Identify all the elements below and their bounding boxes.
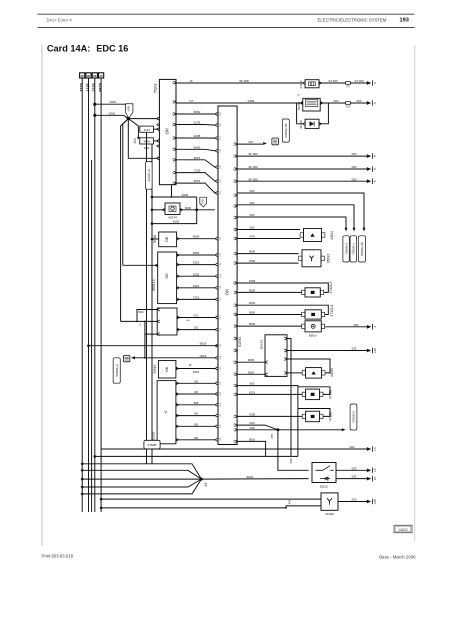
pin box1 left y140.9	[157, 139, 160, 142]
svg-text:000: 000	[250, 213, 255, 217]
svg-text:L95: L95	[373, 348, 377, 353]
pin box2 left entry y317.5	[215, 316, 218, 319]
unit box5 body	[157, 308, 177, 335]
fuse Y13 inline	[346, 102, 351, 105]
wire bus to harness y479.1	[82, 478, 101, 480]
wire 8562 feed	[237, 325, 302, 327]
fuse F4 top-left	[99, 73, 104, 78]
svg-text:453: 453	[288, 499, 292, 504]
svg-text:/08: /08	[194, 436, 198, 440]
pin box1 right y172.6	[173, 171, 176, 174]
pin box1 bottom	[171, 185, 173, 197]
svg-text:2609: 2609	[249, 301, 256, 305]
wire 47106 return loop	[298, 409, 330, 417]
pin box2 left entry y357.8	[215, 356, 218, 359]
wire bus to harness y487.0	[82, 486, 101, 488]
svg-text:5F 908: 5F 908	[239, 79, 249, 83]
pin box2 left entry y394.0	[215, 393, 218, 396]
fuse 61112 body	[305, 80, 319, 88]
svg-text:53528+9: 53528+9	[115, 364, 119, 376]
svg-text:0018: 0018	[200, 354, 207, 358]
svg-text:52: 52	[81, 74, 84, 78]
svg-text:193: 193	[400, 18, 409, 24]
unit 85152 body	[157, 381, 176, 444]
wire bus to harness y470.3	[82, 469, 101, 471]
svg-text:75301: 75301	[154, 84, 158, 94]
pin box2 left entry y426.3	[215, 425, 218, 428]
sensor 8562 body	[305, 321, 321, 332]
tag 72868+3	[343, 236, 349, 262]
harness A9 outline bottom	[101, 479, 201, 494]
svg-text:800: 800	[250, 382, 255, 386]
wire 5F908 ECU to fuse 61112	[176, 82, 303, 84]
svg-text:6550: 6550	[193, 251, 200, 255]
sensor 47308 body	[306, 389, 320, 400]
connector 414 upper half	[140, 126, 154, 132]
wire 61112 to terminator	[319, 82, 368, 84]
svg-text:61593: 61593	[238, 337, 242, 347]
svg-text:L6: L6	[373, 447, 377, 451]
wire 9202 horizontal	[152, 196, 197, 198]
wire 86XXX feed 9005	[237, 361, 265, 363]
svg-text:L6: L6	[373, 477, 377, 481]
svg-text:7155: 7155	[92, 83, 96, 91]
terminator arrow L95	[367, 349, 371, 353]
wire box5 stub down join 0018	[144, 334, 146, 358]
wire bus 1376 vertical	[88, 78, 90, 512]
wire relay out L6b	[336, 478, 368, 480]
svg-text:0061: 0061	[109, 111, 116, 115]
wire relay out L5	[336, 469, 368, 471]
svg-text:47320-2: 47320-2	[329, 281, 333, 293]
wire 21098 out	[338, 501, 368, 503]
svg-text:000: 000	[357, 99, 362, 103]
injector 44044 no2 body	[306, 368, 322, 379]
svg-text:8562+: 8562+	[309, 333, 318, 337]
pin box1 right y101.8	[173, 100, 176, 103]
wire 86XXX feed 9006	[237, 373, 265, 375]
wire 414 to box1 stub upper	[154, 128, 157, 130]
svg-text:86XXX: 86XXX	[259, 340, 263, 350]
svg-text:SF 000: SF 000	[248, 152, 258, 156]
wire 85021 out 5155	[177, 275, 215, 277]
tag 53528+9	[113, 358, 120, 383]
svg-text:52302: 52302	[297, 101, 301, 110]
svg-text:85021 1: 85021 1	[152, 279, 156, 291]
wire parallel loop relay-diode left	[297, 103, 303, 124]
svg-text:/10: /10	[194, 390, 198, 394]
svg-text:6901: 6901	[193, 370, 200, 374]
svg-text:2/05: 2/05	[249, 421, 255, 425]
wire 47308 return loop	[298, 387, 330, 395]
svg-text:61976+9: 61976+9	[147, 169, 151, 181]
wire A9 to relay 9001	[201, 478, 308, 481]
pin box2 left entry y383.3	[215, 382, 218, 385]
wire box5 feed mid	[121, 320, 158, 322]
fuse F1 top-left	[80, 73, 85, 78]
wire 9051 box1 to box2	[176, 183, 215, 193]
svg-text:44044: 44044	[330, 368, 334, 377]
fuse F2 top-left	[86, 73, 91, 78]
svg-text:9005: 9005	[248, 358, 255, 362]
wire node to box2 9108	[197, 209, 215, 211]
svg-text:9 6322: 9 6322	[136, 311, 144, 314]
svg-text:61315: 61315	[299, 120, 303, 129]
svg-text:8050: 8050	[194, 110, 201, 114]
svg-text:000: 000	[352, 165, 357, 169]
svg-text:0609: 0609	[249, 288, 256, 292]
svg-text:OK: OK	[165, 273, 169, 279]
svg-text:OK: OK	[165, 366, 169, 372]
svg-text:<: <	[163, 410, 169, 413]
wire 475 vertical to relay	[278, 430, 309, 471]
svg-text:ELECTRIC/ELECTRONIC SYSTEM: ELECTRIC/ELECTRONIC SYSTEM	[318, 18, 387, 23]
terminator arrow L95 bottom	[367, 500, 371, 504]
pin box2 left entry y238.7	[215, 237, 218, 240]
node 475 branch	[276, 428, 279, 431]
terminator arrow row 3	[367, 179, 371, 183]
relay 52302 body	[303, 98, 320, 111]
pin box2 left entry y368.5	[215, 367, 218, 370]
wire bus 7155 vertical	[94, 78, 96, 512]
wire 8050 box1 to box2	[176, 113, 215, 115]
svg-text:0366: 0366	[248, 99, 255, 103]
wire junction to box1 pin	[128, 118, 156, 120]
harness A9 inner wire 1	[101, 470, 201, 479]
unit 76116 body	[159, 232, 177, 247]
relay 8112C body	[312, 463, 336, 483]
svg-text:000: 000	[352, 475, 357, 479]
tag A78	[200, 197, 207, 207]
svg-text:9606: 9606	[249, 250, 256, 254]
wire 47308 feed	[237, 393, 302, 395]
wire L6 long 449	[101, 448, 368, 450]
wire 0061 branch lower	[95, 115, 129, 118]
wire bus extra vertical	[91, 160, 93, 512]
pin box2 left entry y439.8	[215, 438, 218, 441]
wire 42374 left	[152, 209, 165, 211]
svg-text:Y17: Y17	[189, 100, 194, 103]
svg-text:414: 414	[133, 138, 137, 144]
terminator arrow L6 mid	[367, 447, 371, 451]
pin box1 right y124.5	[173, 123, 176, 126]
wire 44044no1 pin2	[237, 238, 300, 240]
svg-text:8150: 8150	[185, 206, 192, 210]
ECU U1 75301 body	[159, 79, 176, 184]
svg-text:9018: 9018	[200, 342, 207, 346]
wire 76116 to box2 0605	[177, 238, 215, 240]
wire 44044no1 pin1	[237, 229, 300, 231]
svg-text:1/08: 1/08	[249, 426, 255, 430]
wire 86XXX pin2 to terminator L95	[287, 350, 368, 352]
wire box5 feed lower stub	[145, 321, 157, 334]
svg-text:OK: OK	[165, 236, 169, 242]
svg-text:000: 000	[354, 323, 359, 327]
svg-text:4/78: 4/78	[249, 235, 255, 239]
svg-text:21098: 21098	[325, 512, 334, 516]
svg-text:6879: 6879	[99, 83, 103, 91]
svg-text:1609: 1609	[249, 279, 256, 283]
svg-text:72868+1: 72868+1	[352, 243, 356, 255]
wire 9018 long	[89, 345, 219, 347]
svg-text:OK: OK	[165, 127, 170, 135]
svg-text:53519: 53519	[153, 365, 157, 374]
pin box1 right y82.7	[173, 81, 176, 84]
svg-text:DAILY EURO 4: DAILY EURO 4	[47, 17, 73, 22]
wire 0040 box1 to box2	[176, 149, 215, 151]
svg-text:Y13: Y13	[346, 104, 351, 108]
svg-text:A36: A36	[127, 106, 131, 112]
wire box5 out 011	[177, 329, 215, 331]
sheet number tag 14021	[394, 525, 412, 532]
wire diagonal to bus box5	[121, 119, 129, 322]
svg-text:A9: A9	[204, 482, 208, 486]
wire 85152 out /05	[176, 425, 215, 427]
svg-text:7006: 7006	[249, 412, 256, 416]
wire bus to harness y463.8	[82, 463, 101, 465]
wire 47320-2 feed	[237, 291, 302, 293]
wire 47320-2 return loop	[237, 283, 328, 292]
wire 0061 branch upper	[95, 103, 133, 105]
wire diagonal to connector 414	[128, 119, 138, 138]
resistor 42374 body	[165, 203, 180, 215]
svg-text:2150B: 2150B	[148, 443, 157, 447]
wire 2/05 slope	[237, 425, 278, 430]
svg-text:017: 017	[194, 314, 199, 318]
svg-text:3015: 3015	[194, 156, 201, 160]
wire 9016 down	[237, 441, 266, 456]
svg-text:85093: 85093	[327, 254, 331, 263]
pin box2 left entry y345.7	[215, 344, 218, 347]
injector 44044 no1 body	[304, 229, 322, 242]
wire 85021 out 6550	[177, 254, 215, 256]
wire 85093 pin2	[237, 262, 299, 264]
wire 85021 left feed	[123, 264, 158, 266]
svg-text:9202: 9202	[182, 193, 189, 197]
tag 09509+95	[282, 119, 289, 142]
svg-text:7155: 7155	[194, 169, 201, 173]
svg-text:9001: 9001	[247, 475, 254, 479]
harness A9 inner wire 3	[101, 479, 201, 487]
terminator arrow card 5 top	[367, 81, 371, 85]
svg-text:15: 15	[100, 74, 103, 78]
wire 85021 out 7322	[177, 298, 215, 300]
pin box1 right y114.0	[173, 113, 176, 116]
header rule bottom	[38, 27, 415, 29]
svg-text:7609: 7609	[249, 259, 256, 263]
tag 72868+2	[350, 404, 357, 430]
pin box1 left y158.3	[157, 157, 160, 160]
wire 86XXX pin4 to 44044 no2	[287, 372, 302, 374]
wire 53519 out	[176, 368, 215, 370]
wire 21098 feed lower	[101, 506, 321, 508]
svg-text:/06: /06	[194, 412, 198, 416]
pin box2 left entry y264.6	[215, 263, 218, 266]
sensor 47106 body	[306, 411, 320, 422]
svg-text:14021: 14021	[398, 528, 408, 532]
wire 0366 ECU to relay 52302	[176, 102, 303, 104]
svg-text:1208: 1208	[194, 134, 201, 138]
svg-text:Print 603.93.618: Print 603.93.618	[42, 554, 74, 559]
svg-text:0061: 0061	[110, 100, 117, 104]
wire 0018 with arrow to icon	[133, 357, 215, 359]
pump 21098 body	[321, 493, 338, 510]
wire 47320-1 feed	[237, 314, 302, 316]
pin box1 right y159.8	[173, 158, 176, 161]
tag 61976+9	[146, 162, 153, 190]
terminator arrow row 1	[367, 154, 371, 158]
svg-text:L5: L5	[373, 468, 377, 472]
wire 85152 out /06	[176, 415, 215, 417]
unit 86XXX body	[265, 335, 287, 377]
svg-text:905: 905	[194, 401, 199, 405]
svg-text:000: 000	[352, 466, 357, 470]
svg-text:475: 475	[270, 434, 274, 439]
fuse F3 top-left	[92, 73, 97, 78]
terminator bar 8562	[367, 325, 371, 329]
svg-text:000: 000	[352, 152, 357, 156]
sensor 47320-2 body	[305, 288, 320, 297]
svg-text:50: 50	[93, 74, 96, 78]
wire 3015 box1 to box2	[176, 160, 215, 167]
node 42374 output	[195, 208, 198, 211]
pin box1 left y129.2	[157, 128, 160, 131]
page border left	[41, 44, 43, 546]
svg-text:000: 000	[352, 498, 357, 502]
wire 8562 out to terminator	[325, 326, 369, 328]
page border right	[414, 46, 416, 541]
svg-text:5143: 5143	[194, 121, 201, 125]
wire 097 to Pb	[237, 143, 263, 145]
svg-text:097: 097	[249, 140, 254, 144]
svg-text:000: 000	[352, 177, 357, 181]
connector X1 61593 body	[218, 106, 237, 445]
svg-text:000: 000	[334, 99, 339, 103]
svg-text:5155: 5155	[193, 272, 200, 276]
wire 85152 out /05	[176, 382, 215, 384]
tag 2150B on wire	[144, 440, 160, 449]
wire 86XXX pin3 loop over 44044	[287, 359, 330, 373]
svg-text:72868+2: 72868+2	[352, 411, 356, 423]
wire bus left A	[146, 132, 148, 464]
pin box1 right y183.1	[173, 182, 176, 185]
wire diagonal to bus 85021	[123, 119, 129, 266]
svg-text:9016: 9016	[249, 437, 256, 441]
svg-text:683: 683	[289, 458, 293, 463]
svg-text:SF 000: SF 000	[248, 177, 258, 181]
pin box2 left entry y404.8	[215, 403, 218, 406]
wire 85021 out 3322	[177, 287, 215, 289]
header rule top	[38, 13, 415, 15]
pin box2 left entry y415.6	[215, 414, 218, 417]
wire bus 6879 vertical	[100, 78, 102, 512]
icon diagnostic connector	[124, 355, 130, 361]
sensor 47320-1 body	[305, 310, 321, 319]
pin box2 left entry y287.8	[215, 286, 218, 289]
svg-text:61112: 61112	[299, 80, 303, 88]
svg-text:8112C: 8112C	[320, 485, 329, 489]
wire 85152 out /10	[176, 393, 215, 395]
tag 53066+30	[358, 236, 365, 262]
svg-text:30: 30	[87, 74, 90, 78]
svg-text:1376: 1376	[86, 83, 90, 91]
wire 21098 feed upper	[101, 498, 321, 500]
svg-text:47320-1: 47320-1	[330, 304, 334, 316]
node junction main	[127, 117, 130, 120]
wire SF000 row 3	[237, 180, 368, 182]
wire 414 to box1 stub lower	[154, 140, 157, 142]
wire 85152 out 905	[176, 404, 215, 406]
wire 800 to vertical bus	[237, 386, 298, 457]
svg-text:011: 011	[194, 326, 199, 330]
svg-text:6215: 6215	[249, 390, 256, 394]
svg-text:9051: 9051	[194, 179, 201, 183]
wire bypass loop bottom	[152, 210, 197, 224]
wire box5 out 017	[177, 317, 215, 319]
svg-text:85152: 85152	[151, 431, 155, 440]
svg-text:0322: 0322	[193, 261, 200, 265]
svg-text:3322: 3322	[193, 284, 200, 288]
wire 76116 left	[152, 238, 159, 240]
svg-text:ST 000: ST 000	[354, 79, 364, 83]
svg-text:9105: 9105	[173, 220, 180, 224]
svg-text:0040: 0040	[194, 145, 201, 149]
wire relay to terminator	[320, 102, 368, 104]
svg-text:000: 000	[250, 189, 255, 193]
svg-text:0605: 0605	[193, 235, 200, 239]
svg-text:/05: /05	[194, 422, 198, 426]
node A9 point	[200, 478, 203, 481]
wire junction vertical to box1 lower pin	[128, 119, 156, 159]
svg-text:000: 000	[352, 347, 357, 351]
wire return 456 long	[95, 455, 298, 457]
tag A36	[126, 104, 133, 119]
wire 85021 out 0322	[177, 264, 215, 266]
wire CAN low to tag	[237, 205, 354, 228]
wire SF000 row 2	[237, 168, 368, 170]
wire K line to tag	[237, 217, 346, 228]
wire 1/08 to tag arrow	[237, 429, 342, 431]
icon Pb battery	[272, 138, 279, 145]
svg-text:L95: L95	[373, 499, 377, 504]
wire SF000 row 1	[237, 155, 368, 157]
svg-text:09509+95: 09509+95	[284, 123, 288, 137]
svg-text:OK: OK	[225, 288, 230, 296]
wire bus to harness y493.9	[82, 493, 101, 495]
svg-text:3609: 3609	[249, 311, 256, 315]
diode 61315 body	[305, 119, 319, 128]
terminator arrow L6 lower	[367, 477, 371, 481]
pin box2 left entry y299.4	[215, 298, 218, 301]
wire 42374 right to node	[180, 209, 197, 211]
wire bus 3320 vertical	[81, 78, 83, 512]
wire 85093 pin1	[237, 253, 299, 255]
pin box1 right y138.0	[173, 137, 176, 140]
unit 53519 body	[158, 361, 176, 379]
svg-text:53066+30: 53066+30	[360, 242, 364, 256]
motor 85093 body	[302, 250, 321, 267]
pin box1 left y146.0	[157, 145, 160, 148]
svg-text:000: 000	[250, 201, 255, 205]
unit 85021 body	[158, 252, 177, 304]
svg-text:4144: 4144	[144, 128, 150, 132]
wire box5 feed upper stub	[137, 310, 157, 322]
svg-text:SF 000: SF 000	[248, 165, 258, 169]
wire 5143 box1 to box2	[176, 124, 215, 127]
wire 1208 box1 to box2	[176, 137, 215, 139]
svg-text:Card 14A:: Card 14A:	[47, 43, 90, 53]
pin box2 left entry y276.2	[215, 275, 218, 278]
